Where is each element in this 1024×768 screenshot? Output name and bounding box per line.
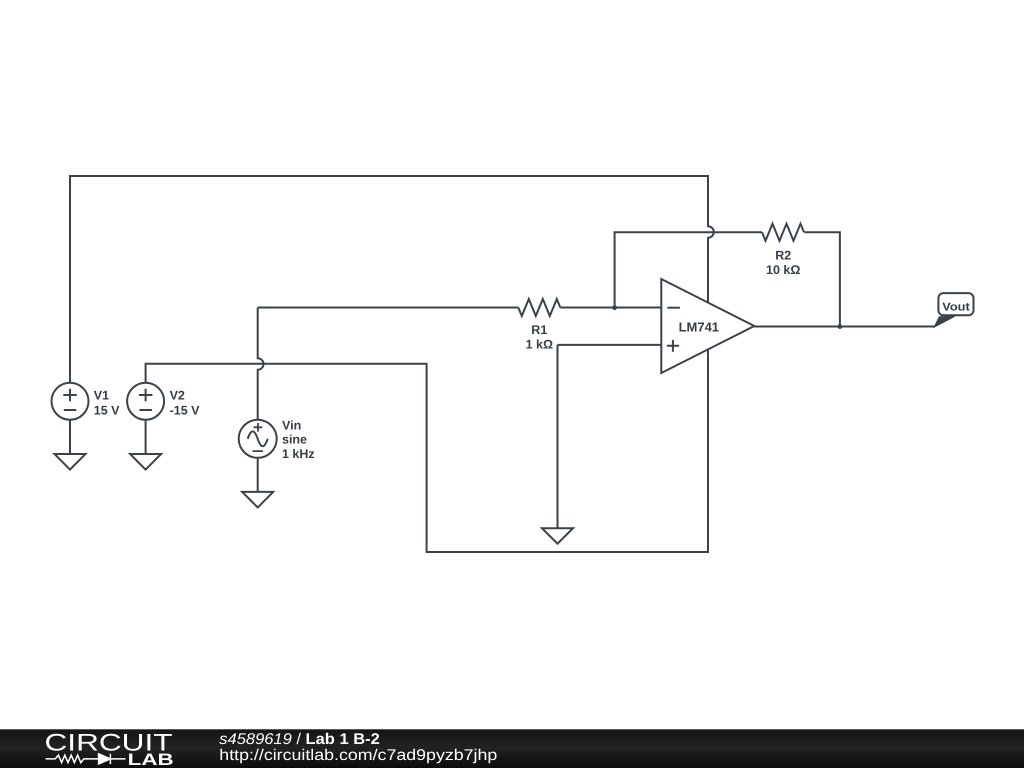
- svg-text:sine: sine: [282, 433, 307, 447]
- svg-text:-15 V: -15 V: [170, 403, 201, 417]
- wire op-amp noninverting input to ground: [558, 345, 662, 528]
- svg-text:http://circuitlab.com/c7ad9pyz: http://circuitlab.com/c7ad9pyzb7jhp: [219, 747, 497, 764]
- net flag Vout: [934, 293, 973, 327]
- svg-text:1 kHz: 1 kHz: [282, 447, 315, 461]
- svg-text:s4589619 / Lab 1 B-2: s4589619 / Lab 1 B-2: [219, 731, 379, 748]
- wire R1 right lead to op-amp inverting input: [560, 307, 661, 309]
- svg-text:10 kΩ: 10 kΩ: [766, 263, 800, 277]
- voltage source V1: [52, 383, 89, 420]
- label V2 -15 V: [170, 389, 201, 418]
- svg-text:Vout: Vout: [942, 301, 970, 313]
- wire feedback: inverting node up and right to R2: [615, 232, 762, 307]
- CircuitLab logo resistor-diode glyph: [46, 754, 126, 764]
- svg-text:Vin: Vin: [282, 418, 301, 432]
- label R1 value: [526, 323, 553, 351]
- wire Vin bottom to ground: [257, 458, 259, 492]
- svg-text:1 kΩ: 1 kΩ: [526, 337, 553, 351]
- ground below V2: [130, 454, 161, 470]
- svg-text:R2: R2: [775, 248, 791, 262]
- ground below V1: [55, 454, 86, 470]
- wire R2 right lead to output node: [804, 232, 840, 326]
- resistor R1: [518, 299, 560, 316]
- svg-text:V1: V1: [94, 389, 109, 403]
- label Vin sine 1 kHz: [282, 418, 315, 461]
- wire V1 top rail to bottom rail to V2 (net with hop over feedback wire): [70, 176, 714, 552]
- svg-text:LAB: LAB: [128, 751, 174, 768]
- wire V2 bottom to ground: [145, 420, 147, 454]
- voltage source V2: [127, 383, 164, 420]
- wire op-amp output to Vout flag: [754, 326, 934, 328]
- wire Vin to R1 left lead: [258, 307, 519, 309]
- svg-text:R1: R1: [531, 323, 547, 337]
- label V1 15 V: [94, 389, 120, 418]
- op-amp U1 LM741: [661, 279, 754, 373]
- resistor R2: [762, 224, 804, 241]
- node junction dot at inverting input: [612, 305, 617, 310]
- voltage source Vin (sine): [239, 420, 277, 458]
- label R2 value: [766, 248, 800, 276]
- svg-text:15 V: 15 V: [94, 403, 120, 417]
- svg-text:LM741: LM741: [679, 320, 719, 335]
- node junction dot at output: [838, 324, 843, 329]
- wire V1 bottom to ground: [69, 420, 71, 454]
- ground at noninverting input: [542, 528, 573, 544]
- ground below Vin: [242, 492, 273, 508]
- svg-text:V2: V2: [170, 389, 185, 403]
- wire Vin vertical with hop over V2 rail: [258, 308, 264, 421]
